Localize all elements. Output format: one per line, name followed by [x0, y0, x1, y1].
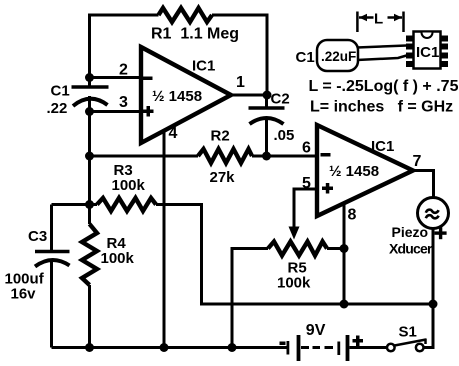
capacitor C3 [35, 205, 70, 348]
junction C2 bottom node [262, 152, 271, 161]
piezo transducer [418, 198, 449, 229]
svg-text:½ 1458: ½ 1458 [152, 88, 202, 105]
inset dimension arrow [357, 12, 403, 33]
svg-text:IC1: IC1 [371, 138, 394, 155]
svg-text:.22uF: .22uF [321, 49, 356, 64]
wire pin8 down [343, 203, 346, 304]
svg-text:2: 2 [119, 62, 128, 79]
wire pin2 [90, 76, 142, 79]
battery 9V [280, 335, 364, 361]
svg-text:L= inches f = GHz: L= inches f = GHz [310, 99, 453, 116]
svg-text:IC1: IC1 [192, 58, 215, 75]
label piezo plus [435, 227, 447, 239]
capacitor C1 [72, 87, 109, 106]
resistor R5 [268, 242, 327, 256]
wire pin1 output [231, 94, 267, 97]
junction piezo bottom node [429, 300, 438, 309]
resistor R3 [97, 198, 156, 211]
svg-text:C2: C2 [271, 91, 290, 108]
op-amp IC1a inverting input marker [143, 77, 153, 81]
svg-text:Xducer: Xducer [389, 241, 433, 257]
wire top feedback loop left+top [90, 15, 159, 87]
svg-text:100k: 100k [112, 177, 146, 194]
wire bottom bus [52, 346, 288, 349]
switch S1 [387, 339, 426, 352]
piezo wave symbol [426, 210, 439, 219]
junction bus R5 node [228, 343, 237, 352]
wire pin7 output [413, 171, 434, 199]
svg-text:16v: 16v [11, 286, 37, 303]
wire pin3 [90, 110, 142, 113]
inset IC body [414, 32, 441, 69]
svg-text:.05: .05 [274, 127, 295, 144]
svg-text:4: 4 [169, 125, 178, 142]
wire pin5 [294, 189, 317, 230]
svg-text:.22: .22 [47, 100, 68, 117]
op-amp IC1b non-inverting input marker [322, 183, 333, 194]
junction bus pin4 node [160, 343, 169, 352]
wire piezo bottom [432, 229, 435, 305]
junction R5 right node [340, 244, 349, 253]
wire R4 top lead [88, 205, 91, 225]
wire R2 to pin6 [252, 155, 317, 158]
svg-text:6: 6 [302, 140, 311, 157]
svg-text:C1: C1 [51, 83, 70, 100]
svg-text:C1: C1 [296, 49, 315, 66]
resistor R2 [198, 149, 252, 163]
junction pin3 node [85, 107, 94, 116]
wire left rail below C1 [88, 96, 91, 205]
inset IC notch [422, 33, 433, 39]
wire right rail to switch [424, 304, 433, 348]
svg-text:100k: 100k [277, 275, 311, 292]
capacitor C2 [249, 95, 285, 156]
svg-text:L = -.25Log( f ) + .75: L = -.25Log( f ) + .75 [309, 78, 459, 95]
svg-text:Piezo: Piezo [392, 224, 429, 240]
svg-text:½ 1458: ½ 1458 [329, 163, 379, 180]
op-amp IC1a (half 1458) [141, 47, 231, 143]
svg-text:L: L [374, 11, 383, 28]
svg-text:IC1: IC1 [416, 44, 439, 61]
svg-text:9V: 9V [306, 322, 326, 339]
inset lead upper [357, 46, 407, 48]
junction bus R4 node [85, 343, 94, 352]
svg-text:3: 3 [119, 94, 128, 111]
svg-text:100k: 100k [101, 250, 135, 267]
junction pin8 bottom node [340, 300, 349, 309]
svg-text:27k: 27k [210, 169, 236, 186]
junction R3 node [85, 200, 94, 209]
junction pin1 node [263, 91, 272, 100]
op-amp IC1b inverting input marker [321, 153, 331, 157]
resistor R1 [159, 8, 213, 22]
op-amp IC1a non-inverting input marker [143, 106, 154, 117]
wire R3 net [52, 203, 98, 206]
svg-text:8: 8 [348, 207, 357, 224]
junction R2 node [85, 152, 94, 161]
svg-text:C3: C3 [28, 228, 47, 245]
svg-text:R2: R2 [211, 128, 230, 145]
wire pin4 down [163, 130, 166, 348]
svg-text:R1 1.1 Meg: R1 1.1 Meg [151, 26, 239, 43]
wire R5 right lead [327, 247, 344, 250]
wire R5 left branch [232, 249, 268, 348]
wire R2 net [90, 155, 199, 158]
svg-text:S1: S1 [399, 324, 417, 341]
inset lead lower [357, 56, 407, 61]
arrow R5 wiper [289, 227, 300, 240]
svg-text:1: 1 [236, 74, 245, 91]
resistor R4 [82, 224, 97, 285]
inset capacitor body [317, 40, 358, 71]
wire R3 right to corner [156, 205, 433, 305]
svg-text:7: 7 [413, 153, 422, 170]
op-amp IC1b (half 1458) [317, 125, 413, 216]
inset IC pins left [406, 36, 414, 68]
wire R4 bottom lead [88, 285, 91, 348]
wire battery to switch [350, 346, 388, 349]
inset IC pins right [441, 36, 449, 68]
junction pin2 node [85, 73, 94, 82]
wire top right segment [212, 15, 267, 95]
